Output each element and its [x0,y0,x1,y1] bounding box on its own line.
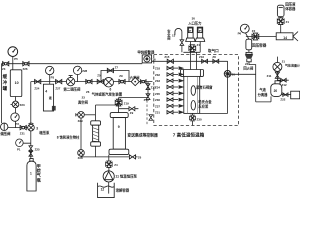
wire vessel to flame arrestor [248,50,250,53]
injection row Z31 [167,111,178,114]
svg-text:分离器: 分离器 [258,92,269,97]
svg-text:10: 10 [15,81,19,85]
svg-text:Z31: Z31 [155,111,160,115]
svg-text:23: 23 [82,96,86,100]
valve Z19 four-way [115,99,122,106]
svg-text:甲烷报警器: 甲烷报警器 [137,50,155,55]
svg-text:Z30: Z30 [197,117,202,121]
metering pump 11 恒温恒压泵 [103,171,114,182]
svg-text:变送集成等控制器: 变送集成等控制器 [127,133,158,138]
svg-text:24: 24 [245,62,249,66]
svg-text:11 恒温恒压泵: 11 恒温恒压泵 [115,174,137,179]
safety valve 13 gooseneck [181,32,183,52]
valve Z24 [35,80,41,84]
svg-text:Z36: Z36 [155,98,160,102]
svg-text:Z22: Z22 [280,98,285,102]
wire liquid feed line horizontal [81,156,138,158]
svg-text:Z1: Z1 [286,20,290,24]
valve Z13 on column [146,84,150,90]
svg-text:Z28: Z28 [82,69,87,73]
balance box [291,91,300,99]
valve Z12 stub [277,79,288,81]
wire right turn-down from sampling line [227,61,229,113]
svg-text:30: 30 [192,17,196,21]
vessel 9 [110,113,128,118]
svg-text:4: 4 [45,89,47,93]
svg-text:Z6: Z6 [86,90,90,94]
svg-text:Z23: Z23 [20,103,25,107]
valve Z15 [167,59,173,63]
svg-text:溶解容器: 溶解容器 [116,187,130,192]
back-pressure valve Z2 [252,33,259,40]
gauge P2 [11,113,19,121]
wire bypass loop around valve Z7 [101,71,129,82]
svg-text:回火阀: 回火阀 [243,65,254,70]
flame arrestor 24 回火阀 [246,52,252,54]
svg-text:Z16: Z16 [199,55,204,59]
svg-text:Z21: Z21 [20,132,25,136]
wire gauge P5 stem into tank top [12,57,14,70]
wire sensor bottom bus [183,51,200,53]
reactor body 哈氏合金反应釜 [184,76,200,113]
wire gear meter branch [228,73,256,75]
svg-text:P: P [189,29,191,33]
valve Z8 [213,59,219,63]
svg-text:气体流量计: 气体流量计 [285,62,300,67]
wire gauge P4 stem [77,75,79,82]
svg-text:Z5: Z5 [97,74,101,78]
gauge P4 [73,66,81,74]
valve Z5 [97,80,103,84]
wire sensor stems [191,42,201,53]
back-pressure regulator 14 [276,33,293,40]
svg-text:Z8: Z8 [212,55,216,59]
svg-text:Z25: Z25 [35,147,40,151]
wire Z29 connections [85,114,96,116]
wire Z20 stub [119,108,139,110]
wire horizontal y=97.5 to vessel 9 riser [119,97,148,99]
valve Z4 [106,161,112,167]
injection row Z14 [167,66,178,69]
svg-text:蓝宝石视窗: 蓝宝石视窗 [196,85,213,90]
svg-text:甲烷气瓶: 甲烷气瓶 [36,163,41,183]
injection row Z33 [167,79,178,82]
svg-text:回压液: 回压液 [285,1,296,6]
wire flame arrestor drain jog [249,62,256,102]
svg-text:Z27: Z27 [55,86,60,90]
svg-text:取气口: 取气口 [208,48,219,53]
svg-text:Z26: Z26 [23,67,28,71]
wire Z2 to regulator 14 [246,36,276,38]
svg-text:Z15: Z15 [164,55,169,59]
wire small vessel to valve Z1b [280,17,282,28]
valve Z7 on bypass [107,68,113,72]
svg-text:Z37: Z37 [155,104,160,108]
svg-text:Z1: Z1 [197,43,201,47]
svg-text:反应釜: 反应釜 [198,104,209,109]
wire bottom-left pump line horizontal [8,127,31,129]
svg-text:8 饱和液生物柱: 8 饱和液生物柱 [57,135,80,140]
wire tank bottom chain to pump line [15,97,17,128]
svg-text:Z9: Z9 [119,74,123,78]
svg-text:Z7: Z7 [115,66,119,70]
svg-text:Z19: Z19 [124,102,129,106]
wire vacuum line down through Z28 to liquid line [80,118,82,157]
svg-text:P2: P2 [15,122,19,126]
svg-text:7 高低温恒温箱: 7 高低温恒温箱 [173,132,205,139]
svg-text:P6: P6 [238,32,242,36]
svg-text:Z11: Z11 [267,74,272,78]
valve Z17 on column [146,94,150,100]
injection row Z32 [167,73,178,76]
svg-text:12: 12 [101,187,105,191]
valve Z6 [86,80,92,84]
svg-text:Z4: Z4 [114,163,118,167]
svg-text:Z24: Z24 [34,86,39,90]
svg-text:调压阀: 调压阀 [0,131,11,136]
second regulator 第二调压阀 [66,76,74,86]
pressure sensor P right [197,27,202,38]
svg-text:Z2: Z2 [252,29,256,33]
wire pump 11 to dissolving beaker [108,182,110,194]
svg-text:Z35: Z35 [155,92,160,96]
valve Z1 top right [277,18,284,25]
svg-text:真空阀: 真空阀 [78,100,89,105]
wire main valve row horizontal [31,81,153,83]
small vessel top right [277,5,284,17]
injection row Z35 [167,92,178,95]
valve Z21 [20,126,26,130]
wire main upper-left horizontal to alarm box [1,63,142,65]
valve below Z25 [29,151,33,157]
methane gas cylinder 1 [30,159,33,162]
svg-text:P5: P5 [14,57,18,61]
wire cylinder riser with P1 spur [23,128,31,159]
svg-text:Z14: Z14 [144,98,149,102]
svg-text:Z34: Z34 [155,86,160,90]
svg-text:3: 3 [36,127,38,131]
svg-text:6: 6 [110,88,112,92]
dashed enclosure 7 高低温恒温箱 [154,55,239,126]
regulator 调压阀 at left edge [0,123,7,130]
valve Z22 [283,93,288,97]
valve Z20 [129,107,135,111]
buffer tank 10 [10,70,21,97]
svg-text:Z9: Z9 [130,111,134,115]
svg-text:Z33: Z33 [155,79,160,83]
svg-text:13: 13 [172,34,176,38]
injection row Z37 [167,104,178,107]
valve Z25 [29,146,33,152]
valve Z27 [56,80,62,84]
wire P6 stem [246,33,249,39]
svg-text:哈氏合金: 哈氏合金 [198,99,212,104]
gauge P5 [8,47,18,57]
back-pressure vessel 回压容器 [246,39,252,50]
svg-text:14: 14 [283,36,287,40]
valve Z9 [119,80,125,84]
wire vacuum branch vertical [95,105,97,115]
reactor flange [181,70,204,77]
svg-text:16: 16 [152,57,156,61]
injection row Z36 [167,98,178,101]
svg-text:Z12: Z12 [282,83,287,87]
svg-text:1: 1 [30,172,32,176]
inlet four-way valve Z1 [189,45,196,52]
wire reactor drain through valve Z30 [192,113,194,125]
dashed water-bath boundary segment [146,100,148,125]
svg-text:Z29: Z29 [78,119,83,123]
pressure sensor P left [188,27,193,38]
wire left edge vertical from valve Z3 down to regulator [0,64,2,123]
wire separator to balance [282,94,291,96]
wire top line from risers to right turn-down [191,60,228,62]
stray valve at box left bottom [149,115,153,121]
valve Z23 [11,101,19,108]
sapphire window upper [191,86,195,96]
svg-text:缓冲罐: 缓冲罐 [2,73,8,92]
diamond valve [131,77,139,85]
storage vessel 4 [43,84,53,111]
valve Z28 [78,150,85,157]
svg-text:液: 液 [49,95,52,100]
wire riser from main valve row down to booster pump [30,82,32,128]
wire vessel 9 riser through valve Z19 [118,98,120,113]
svg-text:Z32: Z32 [155,73,160,77]
valve Z11 [276,71,278,83]
booster pump 3 增压泵 [28,123,35,131]
wire bottom jog to reactor drain [200,112,228,114]
gauge P1 [16,139,24,147]
wire column at x=148 down from valve row [147,82,149,98]
wire biological column stubs [95,115,97,157]
svg-text:P1: P1 [17,147,21,151]
valve Z13a [140,80,146,84]
svg-text:P: P [199,29,201,33]
svg-text:Z3: Z3 [2,67,6,71]
dissolving beaker 12 [98,183,115,198]
wire twin risers into reactor [191,52,197,69]
gauge P3 [46,66,54,74]
drain valve Z30 [190,115,196,121]
wire alarm to reactor risers [152,60,191,62]
svg-text:入口压力: 入口压力 [187,21,202,26]
valve Z3 [3,62,9,66]
svg-text:体容器: 体容器 [284,6,296,11]
svg-text:Z28: Z28 [78,156,83,160]
valve Z6 bottom [129,155,135,159]
gas-liquid separator 20 [275,81,280,84]
gas flow meter 21 气体流量计 [276,57,278,63]
six-way valve 6 [104,77,114,87]
svg-text:Z18: Z18 [155,67,160,71]
wire drain to separator bottom [256,96,271,102]
valve Z26 [23,62,29,66]
wet gas meter 26 [224,70,231,77]
svg-text:增压泵: 增压泵 [39,130,50,135]
svg-text:气液: 气液 [258,87,266,92]
injection row Z34 [167,85,178,88]
wire down to line y36.5 [280,28,282,33]
wire horizontal y=105 from vacuum branch to valve Z19 [96,104,119,106]
svg-text:回压容器: 回压容器 [252,43,267,48]
sapphire window lower [191,101,195,111]
biological column 8 [91,121,101,125]
vacuum valve 真空阀 Z29 [76,112,85,119]
valve Z16 [202,59,208,63]
svg-text:Z6: Z6 [138,156,142,160]
svg-text:9: 9 [118,125,120,129]
svg-text:20: 20 [274,89,278,93]
wire gauge P3 stem into storage vessel 4 [49,75,51,84]
gauge P6 [240,24,249,33]
wire vessel 9 bottom drop to valve Z4 and pump 11 [108,155,110,171]
svg-text:气体或蒸汽发生装置: 气体或蒸汽发生装置 [92,91,123,96]
svg-text:第二调压阀: 第二调压阀 [63,86,81,91]
svg-text:P3: P3 [51,76,55,80]
